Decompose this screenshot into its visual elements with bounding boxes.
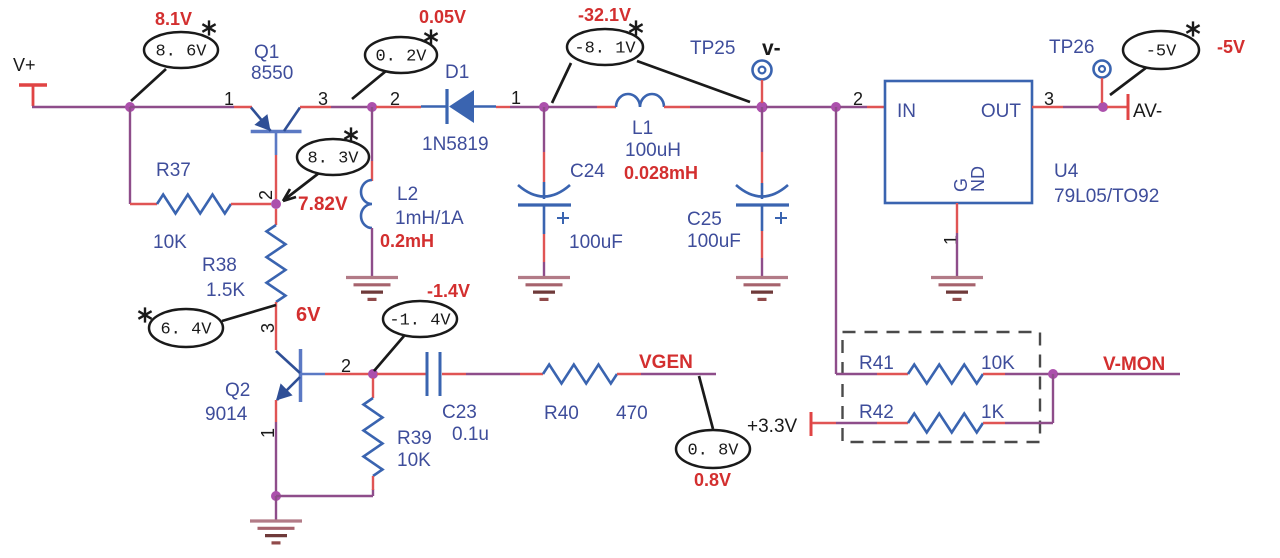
Q2 ground stem [275,496,277,520]
wire D1 to node C [510,106,540,108]
svg-text:1N5819: 1N5819 [422,134,489,155]
svg-text:10K: 10K [397,450,431,471]
wire node D to node E [766,106,832,108]
wire node C down [543,107,545,152]
svg-text:10K: 10K [981,353,1015,374]
svg-text:8. 6V: 8. 6V [155,43,207,62]
svg-text:10K: 10K [153,232,187,253]
R40 right stub [617,373,641,375]
svg-text:-1. 4V: -1. 4V [389,312,451,331]
Q1 base red stub [275,155,277,200]
C25 top stub [761,152,763,183]
svg-text:2: 2 [256,190,276,200]
svg-text:2: 2 [853,89,863,109]
wire node B down [371,107,373,161]
svg-text:R42: R42 [859,402,894,423]
C25 gnd wire [761,258,763,277]
R41 right stub [983,373,1005,375]
svg-text:0.8V: 0.8V [694,470,731,490]
capacitor C25 [761,183,764,199]
R42 left stub [877,422,908,424]
pointer to -1.4V [374,336,404,371]
svg-text:C23: C23 [442,402,477,423]
svg-text:U4: U4 [1054,161,1079,182]
wire C23 to R40 [466,373,520,375]
test point TP26 [1094,61,1111,78]
svg-text:D1: D1 [445,62,469,83]
svg-text:R40: R40 [544,403,579,424]
svg-text:9014: 9014 [205,404,248,425]
inductor L1 [616,94,664,107]
+3.3V port bar [810,412,813,436]
D1 right stub [496,106,510,108]
measured 6.4V ellipse [149,309,223,347]
ground C25 [736,276,788,279]
svg-text:3: 3 [1044,89,1054,109]
svg-text:1: 1 [224,89,234,109]
node D junction [757,102,768,113]
pin 1 stub Q1 emitter [234,106,252,108]
TP26 stub [1101,78,1103,103]
svg-text:TP25: TP25 [690,38,735,59]
resistor R38 [275,209,277,225]
capacitor C23 [426,352,429,396]
wire Q1 collector stub [300,106,331,108]
svg-text:V-MON: V-MON [1103,354,1165,375]
svg-text:7.82V: 7.82V [298,194,348,215]
node E junction [831,102,841,112]
svg-text:L1: L1 [632,118,653,139]
resistor R37 [130,203,157,205]
svg-text:-8. 1V: -8. 1V [574,40,636,59]
wire L1 to node D [690,106,758,108]
node G junction [271,199,281,209]
svg-text:TP26: TP26 [1049,37,1094,58]
+3.3V stub [812,422,836,424]
wire R41 to node J [1005,373,1049,375]
pointer to -5V [1110,67,1147,95]
measured -1.4V ellipse [383,301,457,337]
U4 pin2 stub [867,106,885,108]
asterisk -8.1V [635,20,637,35]
TP25 stub [761,80,763,103]
node F junction [1098,102,1108,112]
C24 gnd wire [543,262,545,277]
ground C24 [518,276,570,279]
pointer arrow to 8.3V [284,173,319,200]
svg-text:OUT: OUT [981,101,1022,122]
wire node J to V-MON [1057,373,1180,375]
wire node E down to R41 [835,107,837,374]
C24 top stub [543,152,545,182]
asterisk 8.3V [350,127,352,142]
svg-text:C25: C25 [687,209,722,230]
pointer to 0.8V [699,376,713,429]
svg-text:100uF: 100uF [569,232,623,253]
AV- port bar [1127,94,1130,120]
U4 gnd wire [956,233,958,277]
svg-text:0.2mH: 0.2mH [380,231,434,251]
svg-text:AV-: AV- [1133,101,1162,122]
wire node B to D1 [376,106,421,108]
svg-text:Q2: Q2 [225,380,250,401]
resistor R42 [908,414,983,433]
node B junction [367,102,377,112]
node I junction [368,369,378,379]
svg-text:8. 3V: 8. 3V [307,150,359,169]
svg-text:v-: v- [762,37,781,60]
asterisk 8.6V [208,20,210,35]
Q2 base stub [325,373,369,375]
svg-text:1K: 1K [981,402,1005,423]
L2 bottom wire [371,228,373,277]
svg-text:ND: ND [968,166,988,192]
dashed measurement box [843,332,1041,442]
asterisk 6.4V [144,307,146,322]
measured 8.6V ellipse [144,32,218,68]
R40 left stub [520,373,543,375]
L1 left stub [597,106,616,108]
wire node C to L1 [548,106,597,108]
pointer right to -8.1V [637,61,750,102]
svg-text:IN: IN [897,101,916,122]
ground L2 [346,276,398,279]
R41 left stub [877,373,908,375]
wire node A down to R37 [129,107,131,204]
wire node D down [761,107,763,152]
svg-text:1mH/1A: 1mH/1A [395,208,464,229]
asterisk 0.2V [430,29,432,44]
svg-text:+3.3V: +3.3V [747,416,798,437]
node J junction [1048,369,1058,379]
wire node A to Q1 emitter stub [130,106,234,108]
C23 right stub [442,373,466,375]
asterisk -5V [1192,21,1194,36]
svg-text:0.028mH: 0.028mH [624,163,698,183]
ground Q2 [250,519,302,522]
svg-text:1.5K: 1.5K [206,280,245,301]
svg-text:Q1: Q1 [254,42,279,63]
resistor R40 [543,365,617,384]
svg-text:0. 8V: 0. 8V [687,442,739,461]
svg-text:R41: R41 [859,353,894,374]
transistor Q2 [299,349,303,402]
U4 pin3 stub [1032,106,1063,108]
pointer to 8.6V [131,69,166,101]
svg-text:-5V: -5V [1146,43,1177,62]
R42 right stub [983,422,1005,424]
U4 pin1 gnd stub [956,203,958,233]
measured 8.3V ellipse [297,139,369,175]
svg-text:2: 2 [390,89,400,109]
svg-text:-1.4V: -1.4V [427,281,470,301]
wire to node B [331,106,368,108]
resistor R41 [908,365,983,384]
node H junction [271,491,281,501]
svg-text:C24: C24 [570,161,605,182]
C25 bottom stub [761,231,763,258]
svg-text:6V: 6V [296,304,321,326]
ground U4 [931,276,983,279]
C24 bottom stub [543,234,545,262]
wire R40 to VGEN [641,373,716,375]
svg-text:L2: L2 [397,184,418,205]
test point TP25 [753,61,772,80]
svg-text:1: 1 [511,88,521,108]
svg-text:VGEN: VGEN [639,352,693,373]
measured -8.1V ellipse [567,29,643,65]
measured 0.8V ellipse [676,430,750,468]
svg-text:0.1u: 0.1u [452,424,489,445]
svg-text:-5V: -5V [1217,37,1245,57]
wire node E leg to R41 [836,373,877,375]
measured -5V ellipse [1123,31,1199,69]
L2 top stub [371,161,373,181]
svg-text:R38: R38 [202,255,237,276]
svg-text:470: 470 [616,403,648,424]
L1 right stub [664,106,690,108]
svg-text:R39: R39 [397,428,432,449]
pointer to 0.2V [352,71,386,99]
node C junction [539,102,549,112]
diode D1 [421,105,447,108]
pointer to 6.4V [222,305,276,321]
V+ port [19,83,47,87]
wire to R42 [836,422,877,424]
wire node F to AV- port [1107,106,1127,108]
svg-text:3: 3 [258,323,278,333]
svg-text:V+: V+ [13,55,36,75]
svg-text:0. 2V: 0. 2V [375,48,427,67]
inductor L2 [361,180,372,228]
svg-text:8.1V: 8.1V [155,9,192,29]
svg-text:79L05/TO92: 79L05/TO92 [1054,186,1159,207]
wire pin3 to node F [1063,106,1099,108]
svg-text:R37: R37 [156,160,191,181]
Q2 emitter wire [275,422,277,493]
svg-text:0.05V: 0.05V [419,7,466,27]
transistor Q1 [251,130,302,134]
wire V+ to node A [32,106,128,108]
wire node H to R39 [276,495,373,497]
wire node E to U4 pin2 [840,106,867,108]
wire R42 to node J [1005,422,1053,424]
svg-text:100uF: 100uF [687,231,741,252]
node A junction [125,102,135,112]
measured 0.2V ellipse [365,37,437,73]
pointer left to -8.1V [552,63,571,103]
regulator U4 box [885,81,1032,203]
svg-text:-32.1V: -32.1V [578,5,631,25]
svg-text:8550: 8550 [251,63,293,84]
svg-text:100uH: 100uH [625,140,681,161]
wire node I to C23 [377,373,427,375]
svg-text:6. 4V: 6. 4V [160,321,212,340]
resistor R39 [372,378,374,398]
Q2 emitter stub [275,400,277,422]
capacitor C24 [543,182,546,199]
